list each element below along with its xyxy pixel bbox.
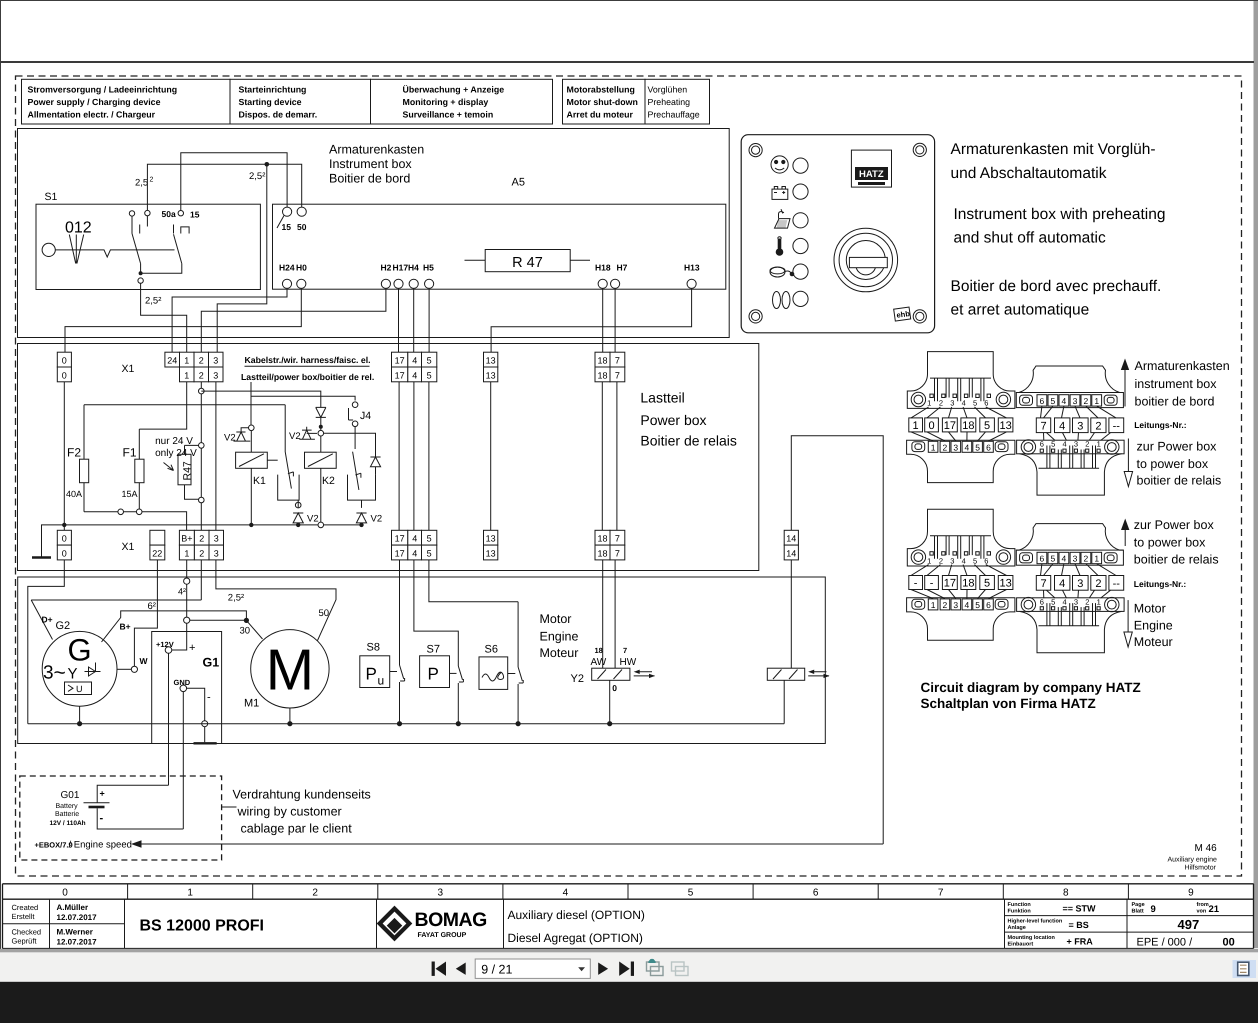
- wire 14 block up and over: [791, 436, 883, 844]
- wire 18 column through box: [601, 382, 603, 531]
- S1 contact stubs: [132, 216, 147, 234]
- svg-text:6: 6: [813, 887, 819, 898]
- svg-text:5: 5: [975, 600, 980, 610]
- svg-text:W: W: [140, 656, 149, 666]
- svg-text:Armaturenkasten: Armaturenkasten: [329, 143, 424, 157]
- pin boxes 6-1 upper right: [1037, 395, 1047, 406]
- svg-text:1: 1: [184, 370, 189, 380]
- svg-text:9 / 21: 9 / 21: [481, 962, 512, 976]
- svg-text:H13: H13: [684, 263, 700, 273]
- svg-text:und Abschaltautomatik: und Abschaltautomatik: [951, 165, 1107, 182]
- wire number boxes right: [1036, 418, 1050, 433]
- svg-text:4: 4: [563, 887, 569, 898]
- svg-text:Allmentation electr. / Charge: Allmentation electr. / Chargeur: [28, 110, 156, 120]
- terminal H0: [297, 279, 306, 288]
- svg-text:FAYAT GROUP: FAYAT GROUP: [418, 932, 467, 939]
- svg-text:4: 4: [1063, 597, 1067, 606]
- svg-text:18: 18: [597, 534, 607, 544]
- svg-text:J4: J4: [360, 410, 371, 422]
- svg-text:U: U: [76, 684, 83, 694]
- svg-text:18: 18: [597, 356, 607, 366]
- wire col2 to D+ and S6: [31, 560, 201, 600]
- wire number boxes left: [909, 418, 923, 432]
- svg-text:K1: K1: [253, 475, 266, 487]
- svg-text:7: 7: [615, 356, 620, 366]
- svg-text:17: 17: [395, 356, 405, 366]
- svg-text:8: 8: [1063, 887, 1069, 898]
- svg-text:6: 6: [1040, 597, 1044, 606]
- svg-text:Motor shut-down: Motor shut-down: [567, 97, 638, 107]
- svg-text:15: 15: [282, 222, 292, 232]
- svg-text:D+: D+: [42, 615, 53, 625]
- svg-text:9: 9: [1188, 887, 1194, 898]
- svg-text:BOMAG: BOMAG: [415, 909, 487, 931]
- svg-text:Funktion: Funktion: [1008, 909, 1032, 915]
- svg-text:6: 6: [986, 442, 991, 452]
- svg-text:X1: X1: [122, 363, 135, 375]
- wire H17 down: [398, 288, 400, 352]
- nav prev icon: [456, 963, 466, 975]
- svg-text:0: 0: [929, 420, 935, 432]
- svg-text:3: 3: [1074, 440, 1078, 449]
- svg-text:2: 2: [943, 442, 948, 452]
- Y2 arrows: [634, 672, 655, 676]
- wire col0 down to bus: [63, 382, 65, 531]
- bus end dot: [359, 523, 363, 527]
- svg-text:5: 5: [973, 556, 977, 565]
- svg-text:7: 7: [938, 887, 944, 898]
- svg-text:Einbauort: Einbauort: [1008, 942, 1034, 948]
- svg-text:3: 3: [953, 600, 958, 610]
- connector group lower : right engine connector upper body: [1016, 524, 1123, 551]
- S1 blade link wire: [141, 264, 182, 274]
- wire B+ of G2: [102, 611, 247, 642]
- nav last icon: [619, 962, 630, 976]
- svg-text:13: 13: [486, 370, 496, 380]
- wire H18 down: [602, 288, 604, 352]
- wire H4 down: [413, 288, 415, 352]
- indicator 1: [793, 158, 808, 173]
- svg-text:Instrument box: Instrument box: [329, 157, 412, 171]
- svg-text:G2: G2: [56, 620, 71, 632]
- svg-text:6²: 6²: [148, 601, 156, 612]
- smiley icon: [771, 156, 788, 173]
- S1 junction dot: [139, 271, 143, 275]
- svg-text:AW: AW: [591, 657, 607, 668]
- ground bus wire: [42, 525, 362, 557]
- wire +12V to battery: [168, 653, 170, 785]
- instrument panel A5 drawing: [741, 135, 934, 333]
- svg-text:Engine: Engine: [540, 630, 579, 644]
- switch S1 box: [36, 204, 260, 289]
- varistor V2 below K2 contact: [356, 500, 366, 525]
- svg-text:== STW: == STW: [1063, 904, 1097, 914]
- wire G2 to bus: [79, 706, 81, 724]
- Y2 bottom to bus: [609, 680, 611, 723]
- svg-text:Preheating: Preheating: [648, 97, 691, 107]
- wire col3 vertical: [215, 382, 217, 531]
- svg-text:4²: 4²: [178, 587, 186, 597]
- svg-text:-: -: [914, 578, 918, 590]
- HATZ logo plate: [851, 150, 891, 187]
- svg-text:= BS: = BS: [1069, 920, 1089, 930]
- terminal H18: [598, 279, 607, 288]
- indicator 5: [793, 264, 808, 279]
- battery icon: [772, 189, 788, 199]
- svg-text:G01: G01: [61, 790, 80, 801]
- svg-text:6: 6: [1040, 396, 1045, 406]
- customer wiring dashed box: [20, 776, 222, 860]
- svg-text:17: 17: [395, 549, 405, 559]
- svg-text:50: 50: [319, 608, 330, 619]
- terminal block X1 18|7 bottom: [595, 530, 625, 560]
- motor M1: [251, 630, 329, 708]
- terminal H7: [611, 279, 620, 288]
- key switch: [834, 228, 898, 292]
- svg-text:P: P: [366, 665, 377, 684]
- svg-text:Prechauffage: Prechauffage: [648, 110, 700, 120]
- junction circle: [118, 509, 124, 515]
- svg-text:H17: H17: [393, 263, 409, 273]
- svg-text:18: 18: [597, 549, 607, 559]
- svg-text:H24: H24: [279, 263, 295, 273]
- svg-text:Kabelstr./wir. harness/faisc.: Kabelstr./wir. harness/faisc. el.: [245, 355, 371, 365]
- svg-text:Boitier de relais: Boitier de relais: [640, 433, 737, 449]
- arrow down group1: [1127, 439, 1129, 472]
- svg-text:3: 3: [214, 534, 219, 544]
- svg-text:+: +: [189, 642, 195, 654]
- svg-text:6: 6: [1040, 554, 1045, 564]
- svg-text:Blatt: Blatt: [1132, 909, 1144, 915]
- header box: monitoring: [371, 79, 553, 124]
- junction dot: [296, 523, 300, 527]
- svg-text:Moteur: Moteur: [1134, 635, 1173, 649]
- svg-text:Function: Function: [1008, 902, 1032, 908]
- wire S1-50 to A5-50: [147, 164, 301, 210]
- right connector lower body: [1017, 598, 1125, 612]
- svg-text:Y: Y: [68, 666, 78, 683]
- svg-text:Motor: Motor: [540, 612, 572, 626]
- svg-text:EPE / 000 /: EPE / 000 /: [1137, 937, 1194, 949]
- wire F2 top to K1 contact: [84, 404, 285, 406]
- svg-text:V2: V2: [371, 514, 383, 525]
- svg-text:2: 2: [943, 600, 948, 610]
- terminal block X1 0/0 top: [57, 352, 71, 382]
- svg-text:7: 7: [615, 549, 620, 559]
- svg-text:H4: H4: [408, 263, 419, 273]
- svg-text:V2: V2: [289, 431, 301, 442]
- svg-text:5: 5: [427, 549, 432, 559]
- svg-text:Geprüft: Geprüft: [12, 937, 38, 946]
- solenoid arrows: [808, 672, 829, 676]
- battery plus wire: [97, 785, 168, 803]
- svg-text:4: 4: [962, 556, 966, 565]
- fan wires upper: [911, 565, 1007, 576]
- svg-text:5: 5: [688, 887, 694, 898]
- icon next view (disabled): [672, 962, 689, 976]
- svg-text:Erstellt: Erstellt: [12, 912, 36, 921]
- svg-text:to power box: to power box: [1134, 536, 1206, 550]
- svg-text:H18: H18: [595, 263, 611, 273]
- S1 contact circles: [129, 211, 134, 216]
- G2 W terminal: [131, 666, 137, 672]
- svg-text:Higher-level function: Higher-level function: [1008, 919, 1063, 925]
- terminal block X1 17|4|5 top: [392, 352, 437, 382]
- svg-text:Lastteil/power box/boitier de: Lastteil/power box/boitier de rel.: [241, 372, 374, 382]
- svg-text:2,5²: 2,5²: [228, 592, 244, 603]
- instrument box outer rect: [18, 129, 730, 338]
- engine bus wire: [28, 723, 784, 725]
- svg-text:-: -: [930, 578, 934, 590]
- svg-text:5: 5: [984, 420, 990, 432]
- svg-text:M 46: M 46: [1195, 843, 1218, 854]
- A5 terminal 15: [283, 207, 292, 216]
- switch J4: [352, 402, 358, 408]
- terminal block X1 17|4|5 bottom: [392, 530, 437, 560]
- wire H24 to X1-24: [172, 288, 287, 352]
- engine speed arrow wire: [140, 843, 884, 845]
- box G1: [152, 632, 222, 744]
- svg-text:00: 00: [1223, 937, 1235, 949]
- pin comb: [930, 536, 991, 559]
- svg-text:497: 497: [1178, 917, 1200, 932]
- arrow down group2: [1127, 600, 1129, 631]
- junction dot K2 feed: [319, 425, 323, 429]
- engine box outer rect: [18, 577, 826, 744]
- wire junction to X1 col3: [217, 164, 267, 352]
- svg-text:6: 6: [984, 399, 988, 408]
- connector group lower : left harness connector upper body: [907, 509, 1015, 566]
- wire S1 to X1-1: [141, 283, 187, 352]
- S7 contact feed: [414, 560, 464, 724]
- svg-text:1: 1: [1097, 597, 1101, 606]
- svg-text:Hilfsmotor: Hilfsmotor: [1185, 864, 1217, 872]
- svg-text:2: 2: [939, 399, 943, 408]
- svg-text:1: 1: [1094, 554, 1099, 564]
- svg-text:--: --: [1113, 578, 1121, 590]
- svg-text:nur 24 V: nur 24 V: [155, 436, 193, 447]
- junction circle col2 c: [199, 497, 205, 503]
- svg-text:1: 1: [1097, 440, 1101, 449]
- svg-text:17: 17: [944, 578, 956, 590]
- svg-text:X1: X1: [122, 541, 135, 553]
- svg-text:Surveillance + temoin: Surveillance + temoin: [403, 110, 494, 120]
- wire H2 to X1-2: [201, 288, 386, 352]
- svg-text:ehb: ehb: [896, 309, 911, 320]
- svg-text:13: 13: [486, 356, 496, 366]
- varistor V2 below K1 contact: [293, 500, 303, 525]
- nav next icon: [598, 963, 608, 975]
- relay K1 coil feed: [250, 382, 252, 425]
- K1 contact bracket: [278, 475, 299, 501]
- svg-text:K2: K2: [322, 475, 335, 487]
- svg-text:5: 5: [975, 442, 980, 452]
- svg-text:0: 0: [612, 683, 617, 693]
- svg-text:3: 3: [953, 442, 958, 452]
- fan wires lower: [911, 432, 1007, 441]
- svg-text:21: 21: [1209, 904, 1220, 915]
- junction circle below bracket: [295, 502, 301, 508]
- svg-text:3: 3: [950, 399, 954, 408]
- svg-text:9: 9: [1151, 904, 1156, 915]
- junction circle F1: [136, 509, 142, 515]
- S1 main wire with kink: [55, 250, 174, 257]
- K1 contact: [285, 405, 293, 489]
- fuse F2: [83, 405, 85, 512]
- diode right of K2: [370, 457, 380, 475]
- svg-text:5: 5: [427, 370, 432, 380]
- svg-text:012: 012: [65, 220, 92, 237]
- terminal block X1 18|7 top: [595, 352, 625, 382]
- terminal H24: [282, 279, 291, 288]
- terminal block X1 24|1|2|3: [165, 352, 223, 382]
- relay K1 coil terminal: [249, 425, 255, 431]
- svg-text:S6: S6: [485, 644, 498, 656]
- svg-text:boitier de relais: boitier de relais: [1137, 474, 1222, 488]
- svg-text:Armaturenkasten: Armaturenkasten: [1135, 359, 1230, 373]
- svg-text:Diesel Agregat (OPTION): Diesel Agregat (OPTION): [508, 931, 643, 945]
- svg-text:22: 22: [152, 549, 162, 559]
- svg-text:Auxiliary engine: Auxiliary engine: [1168, 856, 1218, 864]
- fan wires right upper: [1041, 406, 1117, 418]
- svg-text:4: 4: [412, 356, 417, 366]
- A5 15 switch hint: [277, 216, 284, 229]
- svg-text:2: 2: [939, 556, 943, 565]
- svg-text:cablage par le client: cablage par le client: [241, 822, 353, 836]
- indicator 3: [793, 213, 808, 228]
- svg-text:12V / 110Ah: 12V / 110Ah: [50, 820, 86, 827]
- svg-text:18: 18: [595, 646, 603, 655]
- toolbar: [0, 949, 1258, 982]
- right gray strip: [1254, 1, 1258, 948]
- svg-text:4: 4: [1059, 420, 1065, 432]
- svg-text:Page: Page: [1132, 902, 1145, 908]
- svg-text:1: 1: [187, 887, 193, 898]
- solenoid to bus: [783, 680, 785, 723]
- svg-text:13: 13: [999, 578, 1011, 590]
- junction circle col2 b: [199, 443, 205, 449]
- svg-text:Anlage: Anlage: [1008, 925, 1026, 931]
- svg-text:S7: S7: [427, 644, 440, 656]
- svg-text:Monitoring + display: Monitoring + display: [403, 97, 489, 107]
- svg-text:Power supply / Charging device: Power supply / Charging device: [28, 97, 161, 107]
- svg-text:M: M: [266, 638, 314, 703]
- ground symbol: [32, 556, 51, 559]
- svg-text:5: 5: [1051, 554, 1056, 564]
- wire D+ diagonal: [31, 600, 52, 640]
- svg-text:Motor: Motor: [1134, 602, 1166, 616]
- fuse F1: [138, 429, 140, 512]
- S8 contact: [400, 560, 405, 724]
- wire K1feed to J4: [251, 396, 355, 400]
- svg-text:3: 3: [1073, 554, 1078, 564]
- svg-text:Dispos. de demarr.: Dispos. de demarr.: [239, 110, 318, 120]
- svg-text:5: 5: [427, 356, 432, 366]
- relay K1 coil: [236, 452, 268, 468]
- header box: preheating: [645, 79, 710, 124]
- relay K2 coil terminal: [318, 430, 324, 436]
- svg-text:2: 2: [199, 370, 204, 380]
- svg-text:6: 6: [986, 600, 991, 610]
- ruler row: [3, 884, 1254, 899]
- svg-text:7: 7: [615, 370, 620, 380]
- svg-text:3: 3: [950, 556, 954, 565]
- glow plug icon: [773, 292, 781, 309]
- svg-text:5: 5: [984, 578, 990, 590]
- svg-text:40A: 40A: [66, 489, 82, 499]
- svg-text:HW: HW: [620, 657, 637, 668]
- svg-text:H2: H2: [381, 263, 392, 273]
- arrow to R47: [164, 463, 174, 471]
- heavy separator line under top white band: [0, 61, 1254, 63]
- svg-text:14: 14: [786, 549, 796, 559]
- screw terminals: [911, 550, 925, 564]
- wire col0 ground riser: [28, 560, 65, 724]
- svg-text:50: 50: [297, 222, 307, 232]
- svg-text:2: 2: [1095, 420, 1101, 432]
- svg-text:2: 2: [199, 534, 204, 544]
- svg-text:0: 0: [62, 356, 67, 366]
- svg-text:Arret du moteur: Arret du moteur: [567, 110, 634, 120]
- svg-text:Verdrahtung kundenseits: Verdrahtung kundenseits: [233, 788, 371, 802]
- terminal block X1 13 top: [484, 352, 498, 382]
- wire 7 column through box: [616, 382, 618, 531]
- svg-text:7: 7: [615, 534, 620, 544]
- svg-text:Auxiliary diesel (OPTION): Auxiliary diesel (OPTION): [508, 908, 645, 922]
- svg-text:3: 3: [1074, 597, 1078, 606]
- resistor R47 (panel): [485, 250, 570, 272]
- K2 contact: [353, 427, 361, 490]
- wire col2 to K2 coil: [201, 391, 320, 430]
- screw terminals: [911, 392, 925, 406]
- svg-text:4: 4: [412, 534, 417, 544]
- svg-text:Starting device: Starting device: [239, 97, 302, 107]
- junction dot 30: [244, 618, 249, 623]
- svg-text:G: G: [68, 633, 92, 668]
- thermometer icon: [776, 248, 784, 256]
- fan wires upper: [911, 407, 1007, 418]
- svg-text:H0: H0: [296, 263, 307, 273]
- svg-text:+EBOX/7.9: +EBOX/7.9: [35, 840, 73, 849]
- fan wires lower: [911, 590, 1007, 599]
- svg-text:Motorabstellung: Motorabstellung: [567, 85, 635, 95]
- pins 1-6 upper: [930, 394, 933, 397]
- indicator 4: [793, 238, 808, 253]
- svg-text:P: P: [428, 665, 439, 684]
- wire 17 column through box: [398, 382, 400, 531]
- svg-text:Vorglühen: Vorglühen: [648, 85, 688, 95]
- svg-text:Batterie: Batterie: [55, 810, 79, 818]
- indicator 2: [793, 184, 808, 199]
- terminal block X1 B+|2|3: [179, 530, 223, 560]
- svg-text:Engine: Engine: [1134, 619, 1173, 633]
- svg-text:Leitungs-Nr.:: Leitungs-Nr.:: [1134, 579, 1187, 589]
- junction circle col2 a: [199, 388, 205, 394]
- right connector lower body: [1017, 440, 1125, 454]
- svg-text:M1: M1: [244, 698, 259, 710]
- svg-text:3: 3: [213, 370, 218, 380]
- svg-text:2: 2: [1085, 597, 1089, 606]
- svg-text:4: 4: [1063, 440, 1067, 449]
- svg-text:0: 0: [62, 534, 67, 544]
- resistor R47: [185, 445, 199, 499]
- svg-text:30: 30: [240, 626, 251, 637]
- terminal block X1 13 bottom: [484, 530, 498, 560]
- svg-text:B+: B+: [181, 534, 192, 544]
- relay K2 coil: [305, 452, 337, 468]
- A5 terminal 50: [297, 207, 306, 216]
- svg-text:2,5²: 2,5²: [249, 171, 265, 182]
